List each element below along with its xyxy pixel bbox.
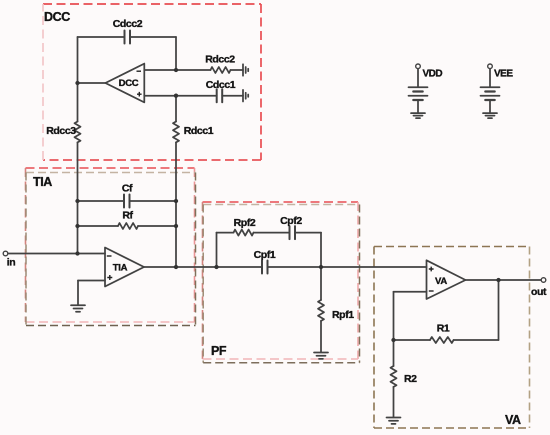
wire DCC output (apex to left rail) (78, 82, 106, 84)
svg-text:in: in (7, 257, 16, 269)
svg-text:VEE: VEE (494, 69, 513, 80)
svg-text:Cdcc2: Cdcc2 (113, 18, 143, 30)
PF block dashed box (tan) (203, 205, 359, 363)
pin minus U-DCC (137, 70, 142, 72)
wire VEE battery to ground (489, 101, 491, 113)
junction node PF right / Rpf1 (319, 265, 323, 269)
VA block dashed box (tan) (374, 247, 530, 429)
op-amp U-VA triangle (427, 260, 466, 299)
svg-text:Rf: Rf (122, 210, 133, 222)
ground at R2 (387, 417, 401, 419)
wire left rail x77 (top wire to Rdcc3) (77, 37, 79, 122)
junction node Rf left (75, 224, 79, 228)
svg-text:VA: VA (505, 413, 521, 427)
TIA block dashed box (tan) (26, 173, 196, 326)
pin plus U-VA (429, 267, 434, 272)
junction node input line / left rail (75, 251, 79, 255)
op-amp U-DCC triangle (105, 64, 144, 103)
ground (right-pointing) at Rdcc2 (242, 64, 244, 76)
wire DCC inverting input line (144, 69, 210, 71)
DCC block dashed box (43, 4, 261, 160)
capacitor Cpf2 (290, 226, 296, 239)
svg-text:TIA: TIA (33, 175, 52, 189)
wire R1 node down to R2 (393, 340, 395, 366)
terminal VEE (488, 64, 493, 69)
resistor Rdcc1 (173, 122, 179, 143)
wire DCC non-inverting input line (144, 95, 216, 97)
wire right rail x176 (non-inv line to Rdcc1) (175, 96, 177, 122)
svg-text:Rdcc3: Rdcc3 (46, 125, 76, 137)
wire input line from in terminal (8, 253, 105, 255)
wire Rpf1 to ground (320, 321, 322, 352)
pin plus U-DCC (137, 92, 142, 97)
junction node non-inv line / right rail (174, 94, 178, 98)
junction node Rf right (174, 224, 178, 228)
wire main output line (TIA apex to Cpf1) (144, 266, 262, 268)
wire VA inverting down to R1 node (393, 292, 395, 340)
TIA block dashed box (red) (26, 168, 195, 322)
ground at Rpf1 (314, 352, 328, 354)
svg-text:DCC: DCC (119, 78, 139, 89)
svg-text:R2: R2 (404, 373, 417, 385)
resistor Rpf2 (234, 230, 254, 236)
resistor Rf (118, 223, 138, 229)
wire Cf left (78, 200, 125, 202)
junction node PF left (214, 265, 218, 269)
wire top left (Cdcc2 left) (78, 36, 125, 38)
svg-text:Cf: Cf (122, 183, 133, 195)
terminal in (3, 251, 8, 256)
battery VEE (481, 86, 500, 88)
wire Rdcc2 to ground (231, 69, 244, 71)
resistor R2 (391, 366, 397, 387)
pin plus U-TIA (107, 275, 112, 280)
wire Cpf2 to right vertical (295, 232, 321, 234)
junction node Cdcc2 right / inverting line (174, 68, 178, 72)
battery VDD (409, 86, 428, 88)
svg-text:Rdcc2: Rdcc2 (205, 54, 235, 66)
PF block dashed box (red) (203, 202, 359, 359)
junction node Cf right (174, 199, 178, 203)
wire R1 node to R1 (394, 339, 431, 341)
pin minus U-TIA (107, 255, 112, 257)
wire R2 to ground (393, 387, 395, 417)
svg-text:VA: VA (435, 276, 447, 287)
svg-text:TIA: TIA (113, 263, 128, 274)
wire PF upper branch right vertical (320, 233, 322, 267)
wire right rail x176 (Rdcc1 to output line) (175, 142, 177, 267)
svg-text:Rpf2: Rpf2 (234, 217, 256, 229)
svg-text:Rdcc1: Rdcc1 (184, 125, 214, 137)
resistor Rpf1 (318, 300, 324, 321)
svg-text:R1: R1 (437, 323, 450, 335)
junction node Cf left (75, 199, 79, 203)
capacitor Cdcc1 (217, 89, 223, 102)
terminal out (541, 278, 546, 283)
svg-text:out: out (531, 286, 547, 298)
wire TIA non-inverting input (78, 280, 105, 282)
svg-text:VDD: VDD (423, 69, 443, 80)
wire feedback vertical to output (498, 280, 500, 340)
wire TIA non-inv down to ground (77, 281, 79, 306)
capacitor Cf (124, 195, 130, 208)
wire right rail x176 upper (top wire to inverting line) (175, 37, 177, 70)
svg-text:Rpf1: Rpf1 (332, 309, 354, 321)
terminal VDD (416, 64, 421, 69)
wire Rf right (138, 225, 176, 227)
wire left rail x77 (Rdcc3 to input line) (77, 142, 79, 253)
VDD terminal wire (417, 69, 419, 87)
svg-text:DCC: DCC (44, 10, 70, 24)
wire VDD battery to ground (417, 101, 419, 113)
wire node to Rpf1 (320, 267, 322, 300)
junction node R1/R2/inverting (391, 338, 395, 342)
wire top right (Cdcc2 right) (130, 36, 176, 38)
ground at TIA non-inverting input (71, 304, 85, 306)
wire Rpf2 to Cpf2 (254, 232, 290, 234)
pin minus U-VA (429, 290, 434, 292)
op-amp U-TIA triangle (105, 248, 144, 287)
capacitor Cdcc2 (125, 31, 131, 44)
capacitor Cpf1 (262, 261, 268, 274)
junction node DCC output / left rail (75, 81, 79, 85)
svg-text:Cpf2: Cpf2 (280, 215, 302, 227)
junction node output line / right rail (174, 265, 178, 269)
resistor R1 (430, 337, 454, 343)
svg-text:Cdcc1: Cdcc1 (206, 79, 236, 91)
wire PF upper branch to Rpf2 (217, 232, 234, 234)
svg-text:Cpf1: Cpf1 (254, 249, 276, 261)
VEE terminal wire (489, 69, 491, 87)
resistor Rdcc3 (75, 122, 81, 143)
wire PF upper branch left vertical (216, 233, 218, 267)
ground (right-pointing) at Cdcc1 (242, 90, 244, 102)
wire VA output to out terminal (466, 279, 542, 281)
wire R1 to feedback corner (454, 339, 499, 341)
wire Cdcc1 to ground (222, 95, 243, 97)
resistor Rdcc2 (211, 67, 231, 73)
wire Rf left (78, 225, 119, 227)
wire main line (Cpf1 to VA non-inv input) (268, 266, 427, 268)
svg-text:PF: PF (211, 344, 227, 358)
wire Cf right (130, 200, 177, 202)
junction node feedback / output (496, 278, 500, 282)
wire VA inverting input (394, 291, 427, 293)
ground at VEE (483, 112, 497, 114)
ground at VDD (411, 112, 425, 114)
